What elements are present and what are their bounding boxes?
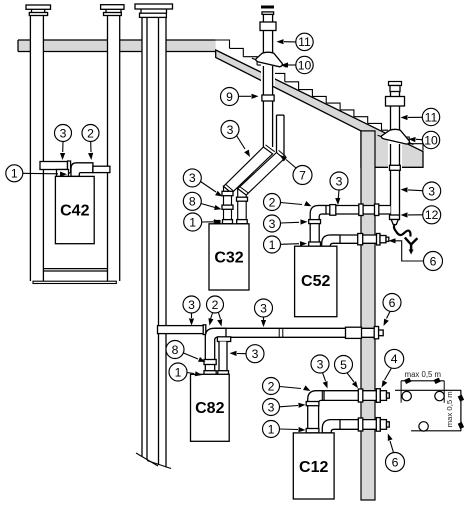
svg-text:3: 3 (269, 217, 276, 231)
C82 duct wall sleeve (346, 327, 362, 338)
C42 boiler collar (57, 170, 69, 177)
C32 terminal upper tube (263, 14, 272, 22)
flexible hose (394, 225, 411, 237)
C32 pipe below roof (263, 66, 272, 95)
C32 boiler (209, 224, 249, 290)
svg-text:10: 10 (424, 133, 438, 147)
duct 3 break lines (136, 453, 171, 469)
C42 air duct end cap (68, 161, 71, 173)
C52 vertical pipe flange (309, 242, 321, 246)
svg-text:3: 3 (428, 184, 435, 198)
C52 wall flange left top pipe (359, 204, 363, 216)
C52 boiler (295, 246, 337, 317)
svg-text:2: 2 (212, 298, 219, 312)
white gap pipe2 through ceiling (108, 39, 120, 54)
C32 tube A boiler flange (223, 220, 233, 224)
roof tiles (216, 40, 423, 151)
detail clamp circle 1 (402, 391, 411, 400)
label 3 C82 flue (230, 345, 265, 363)
terminal 2 bottom cap (390, 215, 400, 225)
label 10 terminal1 (281, 56, 313, 73)
C32 tube B lower joint line (240, 187, 249, 193)
label 12 terminal2 (401, 206, 441, 224)
C42 flue elbow (71, 163, 93, 177)
svg-text:3: 3 (189, 171, 196, 185)
terminal 2 coupler (390, 165, 401, 170)
C32 terminal collar (260, 22, 276, 31)
svg-text:6: 6 (430, 254, 437, 268)
white gap duct3 through ceiling (142, 39, 166, 54)
C12 bottom pipe end cap (380, 420, 389, 430)
C32 terminal tube (263, 31, 272, 54)
svg-text:3: 3 (336, 174, 343, 188)
svg-text:C42: C42 (60, 203, 89, 220)
svg-text:1: 1 (189, 215, 196, 229)
duct 3 roof cap (135, 4, 173, 17)
terminal 2 cap top (389, 82, 402, 86)
svg-text:3: 3 (188, 298, 195, 312)
C32 tube B upper joint line (279, 150, 287, 156)
C32 terminal cap top (261, 6, 274, 9)
roof slab (216, 50, 423, 167)
C82 duct end cap (379, 330, 384, 336)
terminal 2 tube upper (391, 92, 400, 97)
terminal 2 pipe below roof (391, 144, 400, 166)
label 5 C12 (335, 356, 359, 389)
svg-text:6: 6 (392, 455, 399, 469)
C32 tube A lower joint line (226, 184, 234, 191)
detail vertical line right (458, 390, 464, 431)
label 1 C32 (184, 213, 221, 231)
label 3 C82 duct right (255, 299, 273, 327)
svg-text:3: 3 (227, 123, 234, 137)
detail pipe line bottom (411, 430, 461, 432)
C12 top elbow (308, 391, 324, 433)
C12 bottom pipe wall collar (358, 418, 363, 431)
C32 tube B boiler flange (237, 220, 248, 224)
terminal 2 storm collar (378, 129, 414, 144)
C32 tube B sloped (238, 153, 284, 196)
C82 duct end flange (374, 327, 378, 339)
svg-text:8: 8 (172, 343, 179, 357)
svg-text:2: 2 (268, 379, 275, 393)
svg-text:C82: C82 (195, 400, 224, 417)
label 8 C82 (166, 341, 206, 363)
wall (361, 131, 375, 500)
C52 bottom pipe (330, 235, 377, 243)
svg-text:1: 1 (268, 422, 275, 436)
C42 boiler text (60, 203, 89, 220)
white gap terminal2 through roof (388, 126, 402, 169)
label 3 C12 top pipe (311, 355, 329, 389)
svg-text:5: 5 (340, 358, 347, 372)
C42 boiler (55, 176, 94, 243)
C82 flue tube (219, 342, 227, 375)
duct 3 outer lines (142, 17, 166, 467)
C52 bottom pipe end flange (377, 234, 381, 246)
svg-text:7: 7 (299, 168, 306, 182)
C12 bottom pipe (333, 420, 377, 430)
white gap C32 terminal through roof (261, 52, 275, 86)
svg-text:3: 3 (60, 126, 67, 140)
detail pipe line top (395, 389, 461, 391)
detail clamp circle 3 (419, 422, 428, 431)
svg-text:C32: C32 (214, 250, 243, 267)
detail text max 0,5 m vertical (445, 391, 454, 427)
label 3 C52 (264, 215, 308, 232)
label 9 C32 (221, 88, 259, 106)
C12 boiler (293, 433, 334, 499)
C32 boiler text (214, 250, 243, 267)
duct 3 inner lines (147, 17, 159, 465)
C52 top pipe (318, 206, 391, 215)
C82 elbow (205, 328, 226, 374)
label 10 terminal2 (409, 131, 440, 148)
label 1 C82 (169, 363, 202, 381)
svg-text:3: 3 (268, 400, 275, 414)
drain arrow Y (405, 238, 418, 255)
C52 bottom elbow (322, 235, 340, 246)
C32 tube A upper joint line (266, 145, 275, 152)
label 1 C52 (264, 236, 308, 253)
svg-text:11: 11 (298, 35, 311, 49)
C52 top pipe coupler (330, 205, 336, 216)
C82 left tube flange (204, 371, 216, 375)
label 2 C12 (263, 378, 311, 395)
svg-text:4: 4 (391, 352, 398, 366)
svg-text:10: 10 (298, 58, 312, 72)
C82 flue tee collar (217, 337, 230, 342)
C52 bottom pipe coupler (358, 234, 363, 245)
ceiling slab (18, 40, 216, 52)
svg-text:9: 9 (226, 90, 233, 104)
C32 pipe coupler (262, 95, 274, 101)
C82 boiler text (195, 400, 224, 417)
C52 vertical pipe collar (309, 220, 321, 224)
svg-text:12: 12 (425, 208, 439, 222)
svg-text:1: 1 (175, 365, 182, 379)
C12 top pipe wall collar (358, 389, 363, 402)
label 2 C42 (82, 125, 99, 161)
label 2 C52 (264, 194, 312, 211)
label 7 C32 (280, 155, 312, 185)
C32 terminal cap plate (262, 12, 274, 15)
C32 tube A vertical lower (224, 186, 232, 223)
label 3 C32 upper (221, 121, 250, 158)
C32 tube A sloped (224, 147, 273, 193)
C12 top pipe end cap (380, 391, 389, 401)
label 11 terminal1 (277, 33, 314, 50)
detail clamp circle 2 (435, 391, 444, 400)
label 11 terminal2 (401, 108, 440, 125)
C12 top pipe end flange (376, 389, 380, 403)
C82 right tube flange (218, 371, 229, 375)
C52 boiler text (301, 273, 330, 290)
C42 air duct horizontal (40, 162, 68, 170)
C32 tube B collar (237, 197, 248, 201)
C82 left tube collar 1 (204, 360, 216, 365)
label 3 C32 mid (183, 169, 222, 197)
C42 flue duct to pipe2 (93, 166, 110, 172)
svg-text:2: 2 (87, 126, 94, 140)
label 1 C42 (6, 165, 67, 182)
label 2 C82 (207, 296, 224, 327)
C52 top elbow (310, 206, 326, 247)
svg-text:C12: C12 (299, 459, 328, 476)
svg-text:3: 3 (260, 301, 267, 315)
C12 vertical pipe flange (306, 429, 319, 433)
C82 duct joint (279, 328, 283, 337)
label 1 C12 (263, 421, 306, 438)
terminal 2 cap neck (390, 86, 400, 92)
C52 bottom pipe end cap (380, 236, 389, 243)
detail text max 0,5 m horizontal (405, 370, 441, 379)
label 3 terminal2 (401, 182, 441, 200)
pipe 2 vertical lines (108, 16, 120, 282)
svg-text:1: 1 (269, 238, 276, 252)
label 3 C52 top (330, 172, 348, 205)
svg-text:11: 11 (425, 110, 438, 124)
C82 boiler (191, 374, 230, 441)
C12 top pipe (316, 391, 377, 401)
C32 tube A collar 1 (222, 191, 233, 195)
svg-text:8: 8 (189, 195, 196, 209)
C12 boiler text (299, 459, 328, 476)
white gap pipe1 through ceiling (30, 39, 43, 54)
C32 tube B vertical upper (277, 115, 285, 159)
C12 vertical pipe collar (306, 402, 319, 406)
terminal 2 pipe lower (391, 170, 400, 215)
label 6 C12 (386, 434, 405, 472)
label 3 C42 (55, 125, 72, 161)
svg-text:max 0,5 m: max 0,5 m (405, 370, 441, 379)
terminal 2 collar (386, 97, 405, 107)
label 4 C12 (382, 349, 404, 387)
svg-text:2: 2 (269, 195, 276, 209)
pipe 1 vertical lines (30, 16, 43, 282)
C82 air duct from shaft (158, 325, 206, 335)
svg-text:3: 3 (252, 347, 259, 361)
C12 bottom elbow (322, 420, 340, 433)
C32 tube B vertical lower (238, 189, 247, 224)
svg-text:6: 6 (389, 296, 396, 310)
label 6 C82 wall (383, 294, 401, 327)
C32 storm collar (252, 52, 287, 67)
label 3 C82 duct left (183, 296, 200, 326)
pipe 2 roof cap (101, 5, 124, 16)
C52 wall flange right top pipe (375, 204, 379, 216)
detail dim line horizontal (401, 378, 444, 403)
svg-text:max 0,5 m: max 0,5 m (445, 391, 454, 427)
C82 long duct (214, 328, 374, 337)
label 3 C12 vert (263, 399, 306, 416)
label 8 C32 (183, 192, 221, 210)
label 6 C52 flex (389, 238, 443, 270)
pipe 1 roof cap (26, 5, 51, 16)
C32 tube A collar 2 (222, 205, 233, 209)
svg-text:3: 3 (317, 357, 324, 371)
C42 shaft shelf (43, 269, 107, 271)
C42 shaft foot (33, 281, 116, 283)
svg-text:1: 1 (11, 167, 18, 181)
C12 top pipe joint (321, 391, 323, 401)
C12 bottom pipe end flange (376, 418, 380, 432)
svg-text:C52: C52 (301, 273, 330, 290)
terminal 2 tube (391, 106, 400, 131)
C32 pipe lower (263, 101, 272, 147)
